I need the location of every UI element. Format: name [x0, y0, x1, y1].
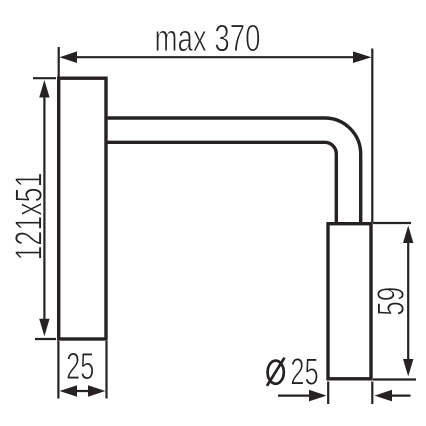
extension line right (d25) [371, 382, 373, 405]
extension line top (121x51) [33, 77, 56, 79]
extension line left (25) [57, 341, 59, 399]
arrowhead down (121x51) [39, 319, 49, 337]
dimension line 25 [74, 390, 91, 392]
arrowhead up (59) [403, 226, 413, 244]
extension line top (59) [373, 222, 411, 224]
lamp head outline [328, 224, 371, 379]
extension line left (max 370) [58, 47, 60, 77]
extension line right (25) [105, 341, 107, 399]
arrowhead left (max 370) [60, 51, 78, 63]
wall plate outline [59, 78, 106, 339]
extension line bottom (121x51) [35, 338, 56, 340]
arrowhead up (121x51) [39, 80, 49, 98]
arrowhead left (25) [60, 385, 78, 397]
dimension line d25 right [389, 395, 411, 397]
arrowhead left-pointing (d25 right) [375, 390, 393, 402]
label d25 diameter symbol [267, 358, 285, 386]
svg-text:max 370: max 370 [155, 18, 261, 60]
dimension line d25 left [278, 395, 312, 397]
arrowhead right-pointing (d25 left) [309, 390, 327, 402]
svg-text:59: 59 [371, 287, 413, 316]
svg-text:25: 25 [66, 346, 95, 388]
extension line right (max 370) [371, 49, 373, 223]
svg-text:121x51: 121x51 [9, 173, 51, 261]
lamp arm inner tube line [106, 142, 336, 222]
dimension line 121x51 [43, 95, 45, 321]
arrowhead right (25) [88, 385, 105, 397]
extension line bottom (59) [373, 378, 416, 380]
svg-text:25: 25 [290, 352, 319, 394]
arrowhead down (59) [403, 359, 413, 377]
lamp arm outer tube line [106, 118, 361, 222]
dimension line 59 [407, 241, 409, 361]
dimension line max 370 [75, 56, 355, 58]
extension line left (d25) [327, 382, 329, 405]
arrowhead right (max 370) [353, 51, 372, 63]
